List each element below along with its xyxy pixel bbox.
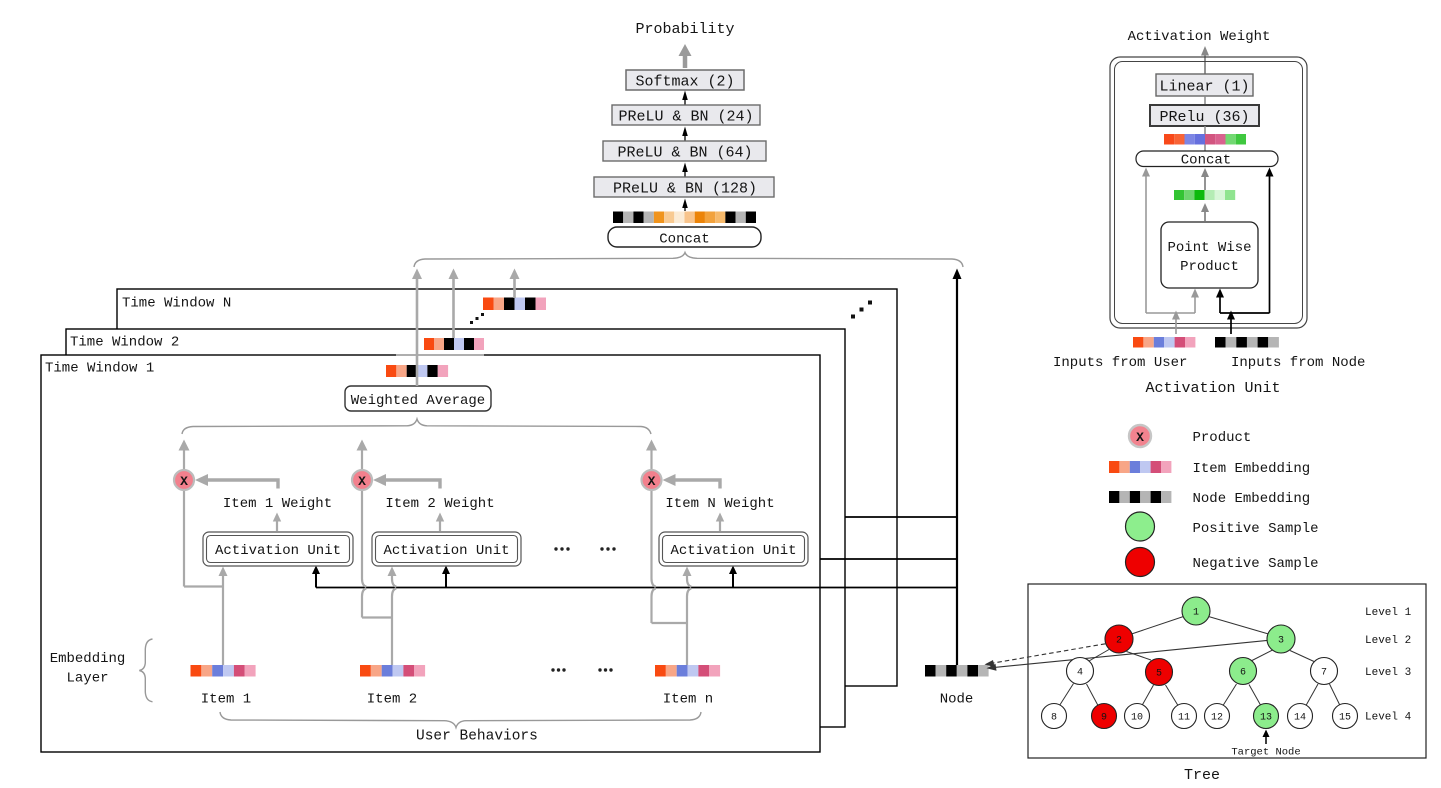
pointwise product green strip (6 segments) [1174,190,1235,200]
svg-text:PReLU & BN (24): PReLU & BN (24) [618,109,753,126]
svg-text:Product: Product [1180,259,1239,275]
weighted average box [345,386,491,411]
weight elbow arrow into product X1 [195,474,278,489]
svg-text:Level 2: Level 2 [1365,635,1411,647]
tree node 1 (positive) [1182,597,1210,625]
edge 5-11 [1166,685,1179,706]
tree node 15 [1333,704,1358,729]
edge 3-6 [1251,650,1273,661]
arrowheads gray into AU bottoms [219,567,692,577]
svg-text:PReLU & BN (128): PReLU & BN (128) [613,181,757,198]
product circle X1 [174,470,194,490]
activation unit box 2 [372,532,521,566]
concat box (main) [608,227,761,248]
item 2 embedding strip [360,665,425,677]
svg-text:Concat: Concat [659,232,709,248]
point wise product box [1161,222,1258,288]
node embedding vertical arrow up to concat brace [953,269,962,666]
node input line for time window N [845,516,957,518]
TW1 output embedding strip [386,365,448,377]
svg-text:Inputs from Node: Inputs from Node [1231,355,1365,371]
svg-text:3: 3 [1278,636,1284,647]
svg-text:Positive Sample: Positive Sample [1193,521,1319,537]
ellipsis dots between AU2 and AU3 [554,547,615,550]
tree edges [1060,617,1341,706]
svg-text:Concat: Concat [1181,153,1231,169]
TWN output embedding strip [483,298,546,311]
svg-text:Item Embedding: Item Embedding [1193,461,1311,477]
svg-text:Activation Unit: Activation Unit [215,543,341,559]
svg-text:Tree: Tree [1184,767,1220,784]
diagonal dots between TW strips [470,313,484,324]
svg-text:User Behaviors: User Behaviors [416,729,538,745]
softmax box [626,70,744,91]
svg-text:Activation Unit: Activation Unit [383,543,509,559]
tree node 12 [1205,704,1230,729]
svg-text:X: X [1136,430,1144,445]
big brace under concat [414,253,963,268]
arrow prelu128 to prelu64 [682,163,688,178]
gray routing from user inputs [1146,172,1195,334]
tree node 8 [1042,704,1067,729]
time window 1 box [41,355,820,752]
white fade of TW1 border under TW2 strip [396,353,484,357]
tree node 5 (negative) [1146,659,1173,686]
target node arrow [1263,730,1270,745]
node embedding strip (bottom) [925,665,989,677]
edge 6-13 [1249,685,1261,706]
gray arrow TW1 weighted average output [412,269,422,387]
TW2 output embedding strip [424,338,484,350]
small gray arrow AU2 top to weight label [436,513,444,532]
svg-text:Time Window N: Time Window N [122,296,231,312]
svg-text:X: X [648,474,656,489]
gray line item n embedding to activation unit 3 (hops over black line) [652,449,692,665]
embedding layer label [50,651,126,687]
prelu (36) box [1150,105,1259,126]
gray line item2 embedding to activation unit 2 (hops over black line) [362,449,396,665]
line strip8 to prelu36 [1204,126,1206,134]
tree node 13 (positive, target) [1254,704,1279,729]
concatenated embedding strip (14 segments) [613,212,756,224]
edge 4-8 [1060,684,1074,706]
weight elbow arrow into product X2 [373,474,440,489]
gray routing arrowheads [1142,168,1199,320]
tree node 4 [1067,658,1094,685]
svg-text:Item 1: Item 1 [201,692,251,708]
svg-text:Item 1 Weight: Item 1 Weight [223,496,332,512]
inputs from node strip [1215,337,1279,348]
tree node 10 [1125,704,1150,729]
svg-text:Linear (1): Linear (1) [1159,79,1249,96]
gray arrow green strip to concat2 [1201,168,1209,190]
node input line for time window 2 [820,558,957,560]
edge 7-14 [1306,684,1318,706]
svg-text:Product: Product [1193,430,1252,446]
svg-text:Level 1: Level 1 [1365,607,1412,619]
time window N box [117,289,897,686]
svg-text:Target Node: Target Node [1231,747,1300,759]
tree box [1028,584,1426,758]
svg-text:9: 9 [1101,713,1107,724]
edge 1-3 [1209,617,1269,635]
svg-text:2: 2 [1116,636,1122,647]
concat box (detail) [1136,151,1278,169]
svg-text:PReLU & BN (64): PReLU & BN (64) [617,145,752,162]
product circle X3 [642,470,662,490]
arrowheads gray up to weighted-average brace [179,440,658,451]
svg-text:Node Embedding: Node Embedding [1193,491,1311,507]
tree node 9 (negative) [1092,704,1117,729]
edge 3-7 [1290,651,1314,662]
svg-text:Point Wise: Point Wise [1167,240,1251,256]
svg-text:Level 4: Level 4 [1365,712,1412,724]
svg-text:6: 6 [1240,668,1246,679]
arrow prelu24 to softmax [682,91,688,106]
svg-text:4: 4 [1077,668,1083,679]
svg-text:Weighted Average: Weighted Average [351,393,485,409]
svg-text:Node: Node [940,692,974,708]
legend item embedding strip [1109,461,1171,473]
tree node 3 (positive) [1267,625,1295,653]
solid arrow from tree node 3 to node embedding [987,640,1273,671]
item 1 embedding strip [191,665,256,677]
svg-text:Activation Unit: Activation Unit [670,543,796,559]
svg-text:13: 13 [1260,713,1272,724]
svg-text:X: X [358,474,366,489]
svg-text:Item N Weight: Item N Weight [665,496,774,512]
tree node 14 [1288,704,1313,729]
svg-text:Item 2 Weight: Item 2 Weight [385,496,494,512]
node input line for time window 1 [316,587,957,589]
edge 4-9 [1087,684,1099,706]
linear (1) box [1156,74,1253,96]
activation unit outer double frame [1110,57,1307,328]
svg-text:7: 7 [1321,668,1327,679]
svg-text:10: 10 [1131,713,1143,724]
legend node embedding strip [1109,491,1171,503]
tree node 6 (positive) [1230,658,1257,685]
dashed arrow from tree node 2 to node embedding [985,643,1111,667]
activation unit box 1 [203,532,353,566]
black arrow node line into AU1 [312,566,320,588]
svg-text:Item 2: Item 2 [367,692,417,708]
brace under weighted average [182,419,651,434]
tree node 7 [1311,658,1338,685]
black routing from node inputs [1220,172,1270,334]
gray arrow TWN weighted average output [510,269,520,299]
tree node 2 (negative) [1105,625,1133,653]
svg-text:1: 1 [1193,608,1199,619]
prelu bn 128 box [594,177,774,198]
black arrow node line into AU2 [442,566,450,588]
svg-text:Negative Sample: Negative Sample [1193,556,1319,572]
gray arrow activation weight output [1201,46,1209,74]
item n embedding strip [655,665,720,677]
small gray arrow AU3 top to weight label [716,513,724,532]
line prelu36 to linear [1204,96,1206,105]
line concat2 to strip8 [1204,145,1206,152]
user behaviors brace [220,712,701,728]
edge 5-10 [1142,685,1154,706]
svg-text:X: X [180,474,188,489]
arrow prelu64 to prelu24 [682,127,688,142]
arrow strip to prelu128 [682,199,688,212]
gray line item1 embedding to activation unit 1 [184,449,223,665]
gray arrow TW2 weighted average output [449,269,459,339]
svg-text:Activation Weight: Activation Weight [1128,29,1271,45]
edge 2-5 [1127,652,1152,661]
activation unit box 3 [659,532,808,566]
gray arrow pwp to green strip [1201,203,1209,221]
concat detail embedding strip (8 segments) [1164,134,1246,145]
svg-text:8: 8 [1051,713,1057,724]
svg-text:Embedding: Embedding [50,651,126,667]
edge 2-4 [1089,650,1109,662]
svg-text:PRelu (36): PRelu (36) [1159,109,1249,126]
edge 7-15 [1330,684,1341,706]
svg-text:Probability: Probability [635,21,734,38]
svg-text:Level 3: Level 3 [1365,667,1411,679]
svg-text:Time Window 1: Time Window 1 [45,361,154,377]
svg-text:Item n: Item n [663,692,713,708]
svg-text:14: 14 [1294,713,1306,724]
small gray arrow AU1 top to weight label [273,513,281,532]
svg-text:5: 5 [1156,669,1162,680]
legend product circle [1129,425,1151,447]
diagonal dots right side (more time windows) [851,301,872,319]
prelu bn 24 box [612,105,760,126]
thick gray arrow to Probability [679,44,692,68]
ellipsis dots between item strips [551,668,612,671]
tree node 11 [1172,704,1197,729]
svg-text:15: 15 [1339,713,1351,724]
inputs from user strip [1133,337,1195,348]
black routing arrowheads [1216,168,1274,320]
svg-text:Activation Unit: Activation Unit [1145,380,1280,397]
product circle X2 [352,470,372,490]
prelu bn 64 box [603,141,766,162]
svg-text:Softmax (2): Softmax (2) [635,74,734,91]
legend positive sample circle [1126,512,1155,541]
legend negative sample circle [1126,548,1155,577]
svg-text:Layer: Layer [66,671,108,687]
edge 6-12 [1223,684,1237,706]
weight elbow arrow into product X3 [663,474,721,489]
embedding layer curly brace [139,639,152,702]
svg-text:Inputs from User: Inputs from User [1053,355,1187,371]
edge 1-2 [1132,617,1184,635]
black arrow node line into AU3 [729,566,737,588]
svg-text:Time Window 2: Time Window 2 [70,335,179,351]
time window 2 box [66,329,845,727]
svg-text:11: 11 [1178,713,1190,724]
svg-text:12: 12 [1211,713,1223,724]
